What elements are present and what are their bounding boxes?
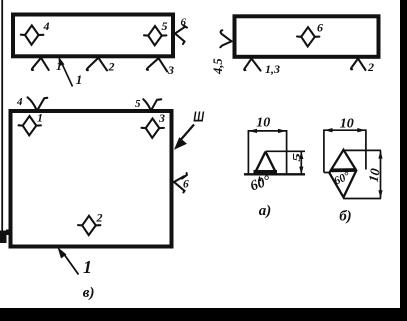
baseline a — [244, 173, 305, 175]
svg-text:6: 6 — [181, 17, 187, 29]
svg-text:2: 2 — [108, 60, 115, 74]
svg-text:10: 10 — [340, 116, 354, 131]
svg-text:1: 1 — [83, 257, 92, 277]
svg-text:6: 6 — [183, 178, 189, 190]
bar outline view I — [13, 15, 173, 57]
svg-text:10: 10 — [256, 115, 270, 130]
arrow II to bottom edge — [58, 247, 79, 275]
svg-text:2: 2 — [367, 60, 374, 74]
svg-text:5: 5 — [135, 98, 141, 110]
dim arrows a top — [249, 129, 257, 133]
square outline view v — [11, 111, 172, 247]
Y mark 4 on top edge — [28, 97, 48, 111]
svg-text:5: 5 — [291, 153, 303, 162]
svg-text:1,3: 1,3 — [265, 62, 280, 76]
svg-text:3: 3 — [158, 111, 165, 125]
Y mark 5 on top edge — [143, 99, 161, 110]
mark 3 under bar — [147, 58, 167, 71]
bar outline top-right — [235, 16, 379, 57]
bottom line b — [344, 198, 382, 200]
mark 4,5 on left edge — [220, 30, 231, 47]
mark 2 under bar right — [351, 59, 366, 70]
svg-text:4: 4 — [43, 19, 50, 33]
rhombus sign b — [329, 150, 356, 198]
svg-text:2: 2 — [96, 211, 103, 225]
roughness mark 6 on right edge of bar — [175, 25, 187, 44]
stamp diamond 1 — [19, 116, 41, 135]
dim line b top — [324, 130, 366, 172]
mark 2 under bar — [87, 58, 107, 71]
svg-text:а): а) — [259, 203, 272, 219]
arrow to bar bottom edge — [59, 56, 73, 86]
bottom black band — [0, 308, 407, 321]
thick arrow III to right edge — [174, 125, 194, 150]
apex line b — [344, 149, 382, 151]
svg-text:10: 10 — [366, 167, 383, 183]
svg-text:1: 1 — [37, 111, 43, 125]
vertical dim 5 line — [300, 151, 302, 174]
svg-text:Ш: Ш — [193, 108, 205, 125]
svg-text:3: 3 — [167, 63, 174, 77]
blob at left edge — [0, 231, 7, 244]
svg-text:4: 4 — [16, 96, 23, 108]
svg-text:б): б) — [339, 209, 351, 225]
stamp diamond 6 — [297, 27, 319, 46]
left page border line — [1, 0, 3, 243]
stamp diamond 5 — [144, 26, 166, 45]
svg-text:4,5: 4,5 — [211, 58, 225, 75]
svg-text:в): в) — [83, 285, 95, 301]
vertical dim 10 line b — [380, 150, 382, 198]
svg-text:6: 6 — [317, 21, 323, 35]
triangle sign a — [254, 152, 278, 172]
apex line a — [266, 150, 306, 152]
stamp diamond 2 — [78, 216, 100, 235]
stamp diamond 3 — [142, 119, 164, 138]
stamp diamond 4 — [21, 25, 44, 44]
svg-text:5: 5 — [162, 19, 168, 33]
mark 6 on right edge of square — [174, 173, 187, 192]
svg-text:1: 1 — [76, 72, 83, 87]
mark 1 under bar — [32, 58, 49, 70]
mark 1,3 under bar — [244, 59, 260, 71]
dim frame a — [248, 131, 286, 175]
right black band — [400, 0, 407, 321]
label 60 deg a — [248, 173, 273, 195]
nub on left edge — [6, 230, 11, 236]
